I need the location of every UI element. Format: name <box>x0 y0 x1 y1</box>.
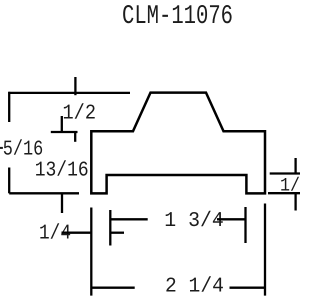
extension line of top edge (left) <box>8 92 130 94</box>
left extension line (long vertical below profile) <box>90 208 92 296</box>
svg-text:2 1/4: 2 1/4 <box>165 276 224 299</box>
tick for 1/4 dimension <box>109 210 111 246</box>
svg-text:13/16: 13/16 <box>35 160 89 183</box>
right side lower extension line <box>268 192 300 194</box>
svg-text:CLM-11076: CLM-11076 <box>122 2 233 32</box>
left dimension line upper segment (1-5/16) <box>8 92 10 122</box>
dimension text 1-5/16 (partially clipped at left): dash <box>0 147 3 149</box>
left dimension line lower segment (1-5/16) <box>8 168 10 194</box>
svg-text:5/16: 5/16 <box>3 138 44 161</box>
tick for 1 3/4 dimension right end <box>244 207 246 243</box>
2 1/4 dimension line left segment <box>91 287 134 289</box>
tick below shoulder extension <box>74 132 76 142</box>
right dimension line upper tick <box>294 158 296 174</box>
right side upper extension line <box>270 172 300 174</box>
svg-text:1/4: 1/4 <box>39 223 71 246</box>
extension line of shoulder (left) <box>51 131 78 133</box>
1 3/4 dimension line right segment <box>217 218 246 220</box>
1/4 dimension tail <box>110 232 124 234</box>
tick below bottom extension <box>61 193 63 213</box>
1 3/4 dimension line left segment <box>110 218 147 220</box>
extension line at bottom level (left) <box>9 192 79 194</box>
right dimension line lower tick <box>294 193 296 211</box>
tick on top extension line <box>74 77 76 95</box>
2 1/4 dimension line right segment <box>230 287 266 289</box>
svg-text:1 3/4: 1 3/4 <box>164 210 224 233</box>
tick below 1/2 text <box>61 116 63 132</box>
svg-text:1/4: 1/4 <box>280 175 300 197</box>
right extension line (long vertical below profile) <box>264 204 266 296</box>
molding profile outline <box>91 93 265 194</box>
1/4 dimension leader line <box>62 232 91 234</box>
svg-text:1/2: 1/2 <box>63 103 97 126</box>
